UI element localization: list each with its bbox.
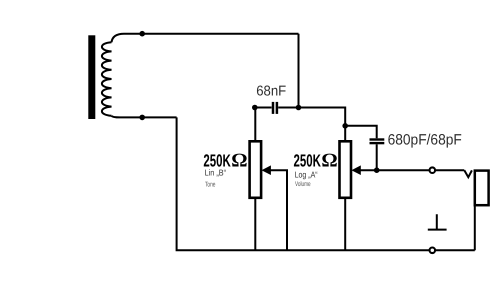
node 680pF branch tap bbox=[342, 123, 348, 129]
terminal hot (open circle) bbox=[430, 167, 436, 173]
wire hot net to volume pot top bbox=[299, 108, 346, 142]
wire C1 left lead bbox=[255, 107, 272, 109]
svg-text:250K: 250K bbox=[294, 150, 322, 170]
wire pickup hot lead (top) bbox=[112, 34, 299, 43]
capacitor C2 680pF/68pF bbox=[370, 140, 385, 144]
wire tone pot top lead bbox=[254, 108, 257, 142]
wire jack sleeve down bbox=[474, 206, 476, 250]
svg-text:Ω: Ω bbox=[321, 150, 337, 171]
jack J1 body bbox=[475, 171, 489, 206]
wiper arrow R1 bbox=[262, 165, 271, 175]
wire top rail drop to hot node bbox=[298, 34, 300, 108]
wire C1 right lead bbox=[278, 107, 298, 109]
node pickup hot junction bbox=[139, 31, 145, 37]
wire R1 bottom to ground rail bbox=[254, 198, 256, 251]
ground rail bbox=[177, 117, 475, 250]
pickup coil L1 bbox=[102, 42, 112, 116]
svg-text:Lin „B“: Lin „B“ bbox=[205, 168, 227, 178]
wire branch to C2 top bbox=[345, 126, 377, 139]
node hot net at C1 right bbox=[296, 105, 302, 111]
node C2 to volume wiper bbox=[374, 167, 380, 173]
svg-text:68nF: 68nF bbox=[256, 84, 286, 100]
svg-text:680pF/68pF: 680pF/68pF bbox=[388, 131, 462, 148]
wire R2 bottom to ground rail bbox=[344, 198, 346, 251]
node tone pot top junction bbox=[252, 105, 258, 111]
svg-text:Tone: Tone bbox=[205, 181, 216, 188]
potentiometer R2 volume 250K body bbox=[340, 141, 352, 198]
node pickup ground junction bbox=[139, 115, 145, 121]
svg-text:Volume: Volume bbox=[295, 181, 311, 188]
svg-text:Log „A“: Log „A“ bbox=[295, 170, 318, 180]
capacitor C1 68nF bbox=[273, 102, 277, 114]
jack tip contact notch bbox=[464, 170, 472, 177]
ground symbol bbox=[428, 214, 447, 229]
wire C2 bottom to wiper net bbox=[376, 144, 378, 170]
pickup core bar bbox=[88, 35, 95, 119]
wire pickup ground lead (bottom) bbox=[112, 116, 177, 118]
potentiometer R1 tone 250K body bbox=[250, 141, 262, 198]
terminal ground (open circle) bbox=[430, 248, 436, 254]
wiper arrow R2 bbox=[351, 165, 360, 175]
svg-text:Ω: Ω bbox=[231, 150, 247, 171]
